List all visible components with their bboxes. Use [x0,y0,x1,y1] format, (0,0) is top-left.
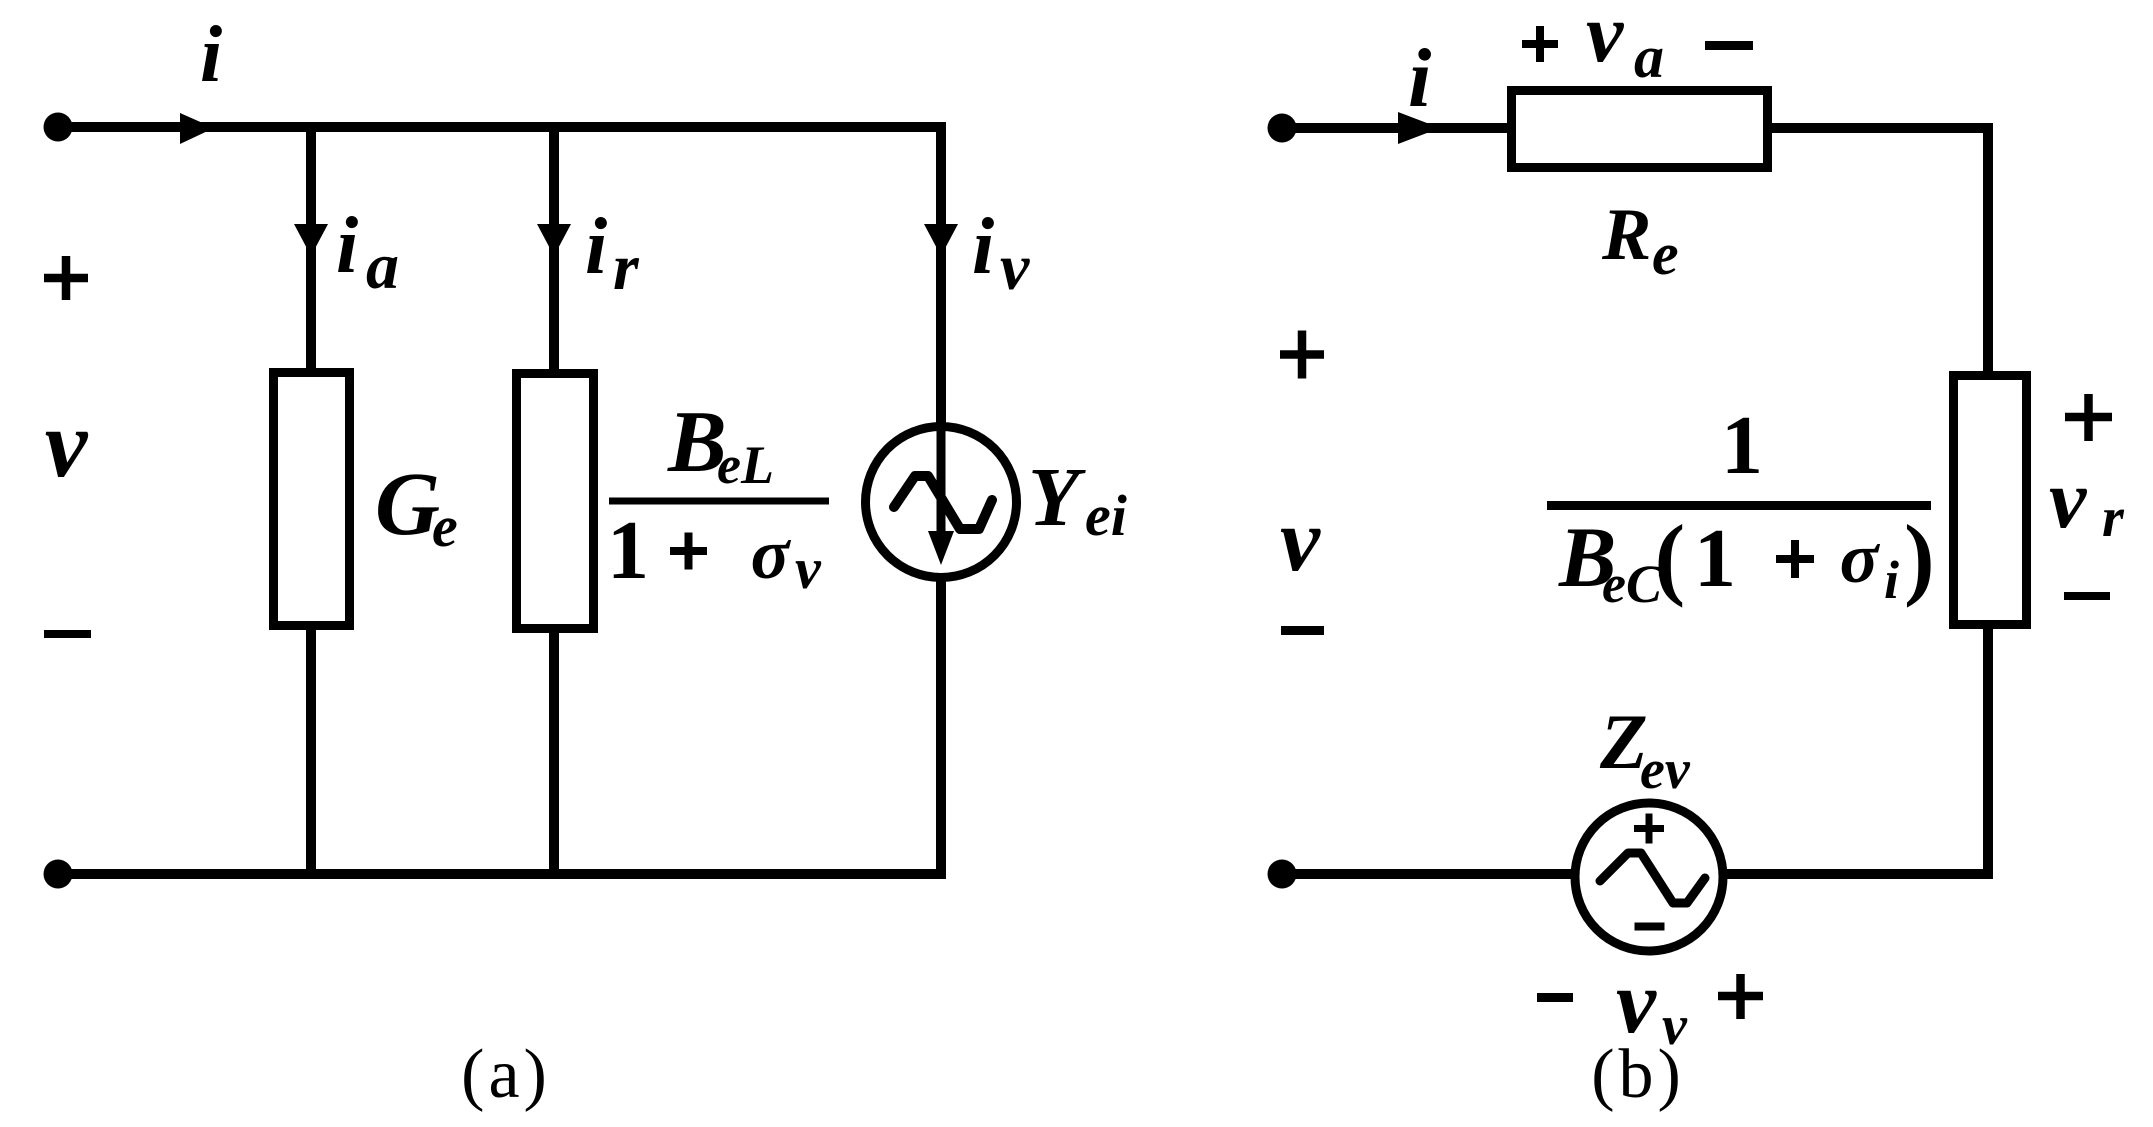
arrow i_a [294,224,328,256]
svg-text:v: v [45,390,89,497]
label + (a, left) [44,256,88,300]
wire: circuit (b) right vertical lower [1983,620,1993,879]
svg-text:σ: σ [1840,518,1881,598]
svg-text:Y: Y [1028,451,1086,544]
wire: branch i_a lower segment [306,625,316,874]
current arrow i (b) [1398,112,1440,144]
label + (b, left) [1280,331,1324,379]
current arrow i (a) [180,113,214,144]
svg-text:v: v [2049,453,2088,546]
label minus (a, left) [44,630,91,638]
svg-text:i: i [1884,550,1899,610]
svg-text:G: G [375,455,440,554]
node: circuit (b) top-left terminal dot [1268,114,1297,143]
node: circuit (a) bottom-left terminal dot [44,860,73,889]
svg-text:ev: ev [1640,739,1691,801]
voltage source sine wave [1600,853,1705,903]
label + v_a - above R_e [1522,26,1558,62]
wire: circuit (b) bottom-left segment [1282,869,1577,879]
svg-text:1: 1 [1694,512,1736,605]
svg-text:i: i [585,203,607,291]
svg-text:(a): (a) [461,1036,551,1113]
svg-text:a: a [1634,24,1664,90]
svg-text:i: i [200,11,222,99]
current source Y_ei sine wave [894,476,992,529]
label minus (b, left) [1281,626,1324,635]
resistor G_e [274,373,350,626]
label minus (b, right) [2064,592,2110,600]
resistor 1/(B_eC(1+sigma_i)) [1954,376,2027,625]
svg-text:i: i [336,202,358,290]
svg-text:ei: ei [1085,483,1127,548]
svg-text:i: i [1408,32,1431,125]
svg-text:): ) [1904,506,1935,608]
voltage source inner minus [1635,923,1665,931]
wire: circuit (b) top-right segment [1766,123,1993,133]
arrow i_r [537,224,571,256]
svg-text:eL: eL [717,435,774,495]
wire: branch i_v lower segment [936,578,946,879]
svg-text:1: 1 [1721,399,1763,492]
svg-text:(b): (b) [1591,1036,1685,1113]
svg-text:r: r [2102,487,2125,549]
label fraction bar (a) [609,498,829,505]
wire: branch i_r upper segment [549,127,559,373]
node: circuit (b) bottom-left terminal dot [1268,860,1297,889]
label + (b, right) [2065,394,2112,441]
svg-text:e: e [432,494,458,559]
voltage source inner plus [1634,814,1664,844]
svg-text:e: e [1652,221,1679,287]
wire: circuit (b) top-left segment [1282,123,1513,133]
svg-text:i: i [972,203,994,291]
label - v_v + below source [1537,993,1573,1002]
svg-text:(: ( [1655,506,1686,608]
wire: branch i_r lower segment [549,628,559,874]
wire: circuit (a) bottom rail [58,869,941,879]
current source Y_ei circle [866,427,1017,578]
svg-text:v: v [1000,231,1030,304]
wire: circuit (a) top rail [58,122,946,132]
svg-text:v: v [1280,491,1321,590]
svg-text:1: 1 [607,504,649,597]
current source Y_ei inner arrow [937,427,946,538]
svg-text:r: r [613,231,640,304]
svg-text:v: v [795,536,822,601]
wire: circuit (b) bottom-right segment [1722,869,1993,879]
wire: branch i_v upper segment [936,122,946,430]
wire: circuit (b) right vertical upper [1983,123,1993,377]
resistor B_eL/(1+sigma_v) [517,374,594,629]
svg-text:a: a [366,230,399,303]
label fraction bar (b) [1547,501,1931,510]
node: circuit (a) top-left terminal dot [44,113,73,142]
svg-text:R: R [1601,194,1651,276]
svg-text:v: v [1586,0,1625,80]
arrow i_v [924,224,958,256]
wire: branch i_a upper segment [306,127,316,372]
svg-text:σ: σ [751,514,792,594]
voltage source Z_ev circle [1575,803,1723,951]
resistor R_e [1512,91,1768,168]
